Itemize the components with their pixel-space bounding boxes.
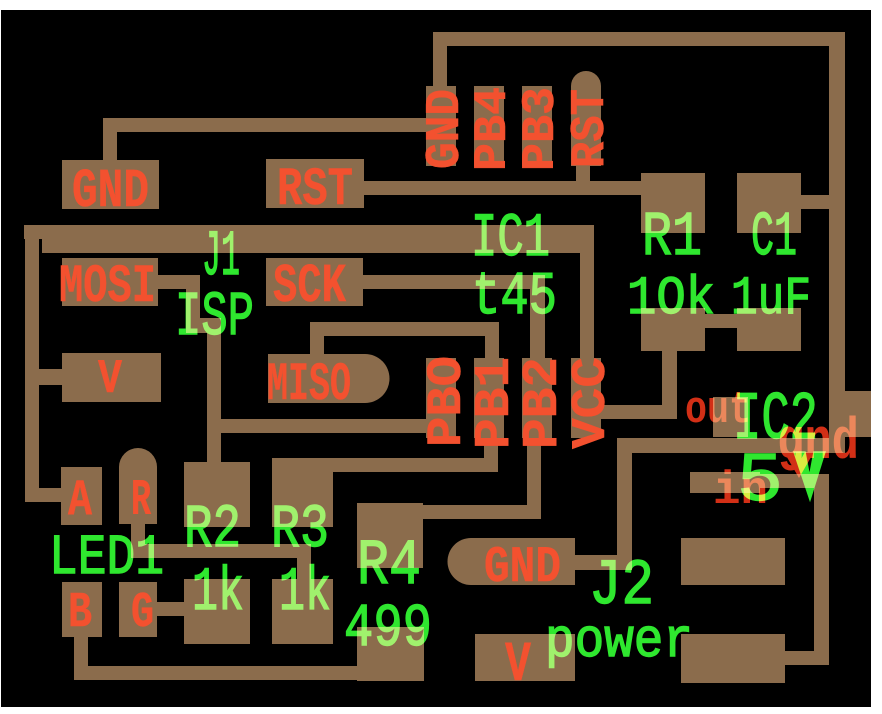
svg-text:PB4: PB4 [467, 87, 519, 171]
svg-text:1Ok: 1Ok [627, 269, 715, 330]
svg-text:GND: GND [419, 89, 473, 169]
svg-text:R4: R4 [357, 531, 421, 603]
svg-text:VCC: VCC [565, 357, 619, 449]
svg-text:LED1: LED1 [49, 527, 164, 591]
svg-text:PB2: PB2 [515, 357, 572, 449]
svg-text:499: 499 [344, 596, 432, 664]
svg-text:C1: C1 [751, 202, 797, 273]
svg-text:PB3: PB3 [515, 87, 567, 171]
svg-text:R1: R1 [642, 202, 702, 273]
svg-text:RST: RST [564, 89, 618, 168]
svg-text:R3: R3 [271, 496, 329, 565]
svg-text:MOSI: MOSI [59, 257, 156, 318]
svg-text:in: in [713, 465, 768, 517]
svg-text:out: out [685, 385, 751, 436]
svg-text:MISO: MISO [267, 355, 351, 416]
svg-text:SCK: SCK [273, 255, 346, 318]
svg-text:1k: 1k [279, 559, 331, 628]
svg-text:1uF: 1uF [731, 269, 811, 330]
svg-text:GND: GND [484, 540, 561, 597]
svg-text:V: V [98, 353, 122, 407]
svg-text:G: G [131, 585, 154, 642]
svg-text:R: R [131, 473, 151, 530]
svg-text:A: A [68, 473, 92, 530]
svg-text:1k: 1k [192, 559, 244, 628]
svg-text:B: B [68, 585, 92, 642]
svg-text:gnd: gnd [777, 411, 859, 476]
svg-text:V: V [505, 634, 532, 698]
svg-text:ISP: ISP [175, 282, 254, 353]
svg-text:RST: RST [277, 160, 353, 221]
svg-text:power: power [545, 610, 693, 673]
svg-text:R2: R2 [184, 496, 241, 565]
svg-text:t45: t45 [472, 264, 557, 332]
svg-text:GND: GND [72, 160, 149, 223]
